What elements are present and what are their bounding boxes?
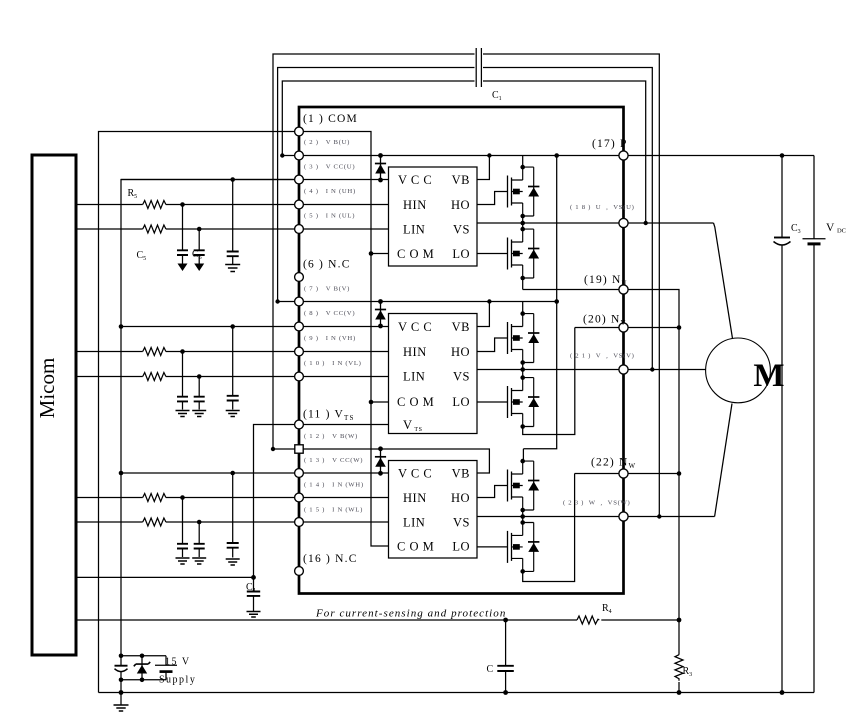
node dots section W <box>180 495 185 500</box>
svg-text:Supply: Supply <box>159 675 196 686</box>
Micom block <box>32 155 76 655</box>
capacitor C1 <box>476 48 481 87</box>
svg-text:( 2 3 ) W , VS(W): ( 2 3 ) W , VS(W) <box>563 500 631 507</box>
wire pin7 VB(V) / V rail <box>278 301 557 303</box>
node pin11 <box>295 420 304 429</box>
wire current-sensing line from micom <box>76 619 577 621</box>
wire COM return: pin1 left line <box>99 132 300 693</box>
wire motor lead from VS(W) <box>715 404 732 517</box>
node pin16 <box>295 567 304 576</box>
transistor U high-side <box>508 165 540 219</box>
capacitor on IN(VH) <box>182 352 184 397</box>
svg-text:V C C: V C C <box>398 467 432 481</box>
svg-text:LIN: LIN <box>403 223 425 237</box>
capacitor C3 electrolytic <box>781 156 783 693</box>
wire motor lead from VS(U) <box>714 223 733 339</box>
svg-text:HO: HO <box>451 491 470 505</box>
svg-text:Micom: Micom <box>35 358 59 419</box>
svg-text:( 1 4 ) I N (WH): ( 1 4 ) I N (WH) <box>304 482 364 489</box>
svg-text:(1 ) COM: (1 ) COM <box>303 113 358 125</box>
node pin8 <box>295 322 304 331</box>
svg-text:LO: LO <box>452 247 470 261</box>
svg-text:(6 ) N.C: (6 ) N.C <box>303 259 351 271</box>
ground <box>226 411 240 417</box>
wire micom to LIN(W) pin15 <box>76 521 299 523</box>
svg-text:VB: VB <box>452 320 470 334</box>
wire pin8 VCC(V) <box>121 326 389 328</box>
node pin19 <box>619 285 628 294</box>
battery 15V supply <box>165 656 167 680</box>
motor M <box>706 338 771 403</box>
wire P bus vertical <box>523 156 556 449</box>
wire VS(V) line pin21 to motor <box>477 369 706 371</box>
node pin17 P <box>619 151 628 160</box>
node pin9 <box>295 347 304 356</box>
svg-text:VS: VS <box>453 516 470 530</box>
wire pin10 IN(VL) <box>299 376 389 378</box>
svg-text:(20) NV: (20) NV <box>583 314 627 328</box>
svg-text:C O M: C O M <box>397 540 434 554</box>
svg-text:( 1 5 ) I N (WL): ( 1 5 ) I N (WL) <box>304 507 363 514</box>
wire U low source to Nu <box>522 278 524 290</box>
svg-text:( 1 2 ) V B(W): ( 1 2 ) V B(W) <box>304 433 358 440</box>
wire loop U (VB(U) to VS(U)) <box>282 81 645 223</box>
svg-text:M: M <box>753 358 784 394</box>
module outline box <box>299 107 624 594</box>
wire COM stub driver1 <box>371 253 389 255</box>
wire pin15 IN(WL) <box>299 521 389 523</box>
svg-text:LIN: LIN <box>403 516 425 530</box>
svg-text:( 1 0 ) I N (VL): ( 1 0 ) I N (VL) <box>304 360 362 367</box>
svg-text:HIN: HIN <box>403 345 427 359</box>
wire loop W (VB(W) to VS(W)) <box>273 54 659 517</box>
svg-text:C: C <box>487 664 494 675</box>
diode bootstrap V <box>375 299 386 328</box>
node pin2 <box>295 151 304 160</box>
svg-text:VB: VB <box>452 467 470 481</box>
wire pin13 VCC(W) <box>121 472 389 474</box>
capacitor on IN(VL) <box>198 377 200 397</box>
resistor (UL) <box>143 225 166 233</box>
svg-text:VS: VS <box>453 370 470 384</box>
svg-text:V C C: V C C <box>398 173 432 187</box>
wire pin4 IN(UH) to HIN <box>299 204 389 206</box>
node pin3 <box>295 175 304 184</box>
zener diode 15V <box>141 656 143 680</box>
wire VS(U) line pin18 <box>477 222 714 224</box>
driver IC V <box>389 314 478 434</box>
junction dot VS(W) crossing <box>520 514 525 519</box>
wire micom to HIN(W) pin14 <box>76 497 299 499</box>
resistor R5 <box>143 201 166 209</box>
ground arrow <box>178 264 188 272</box>
transistor W low-side <box>508 520 540 574</box>
resistor (WH) <box>143 494 166 502</box>
wire pin11 VTS <box>254 425 389 592</box>
node pin12 <box>295 445 303 453</box>
wire micom to LIN(V) pin10 <box>76 376 299 378</box>
battery VDC <box>813 156 815 693</box>
wire VB tap U <box>477 156 489 180</box>
svg-text:For current-sensing and protec: For current-sensing and protection <box>315 608 506 620</box>
wire pin1 COM to driver COM bus <box>299 132 389 547</box>
ground under C4 <box>247 612 261 618</box>
capacitor smoothing on 15V <box>120 656 122 666</box>
wire micom to HIN(U) pin4 <box>76 204 299 206</box>
transistor U low-side <box>508 227 540 280</box>
wire U high source to VS(U) <box>522 216 524 229</box>
capacitor on VCC(V) dist <box>232 327 234 396</box>
node dots section U <box>180 202 185 207</box>
wire HO U gate lead <box>477 192 508 205</box>
wire micom to LIN(U) pin5 <box>76 228 299 230</box>
node pin21 <box>619 365 628 374</box>
wire pin12 VB(W) <box>273 449 489 473</box>
node pin5 <box>295 225 304 234</box>
svg-text:C O M: C O M <box>397 247 434 261</box>
wire pin2 VB(U) / P rail <box>282 155 623 157</box>
capacitor on VCC(U) dist <box>232 180 234 252</box>
svg-text:( 5 ) I N (UL): ( 5 ) I N (UL) <box>304 213 355 220</box>
svg-text:C O M: C O M <box>397 395 434 409</box>
resistor (VH) <box>143 348 166 356</box>
wire V high source to VS(V) <box>522 363 524 378</box>
wire bottom DC- rail <box>99 692 815 694</box>
wire V high drain to rail <box>522 302 524 314</box>
ground <box>192 558 206 564</box>
wire P line to battery <box>624 155 815 157</box>
wire V low source riser to Nv <box>523 328 575 435</box>
resistor (VL) <box>143 373 166 381</box>
op-amp driver IC U <box>389 167 478 266</box>
junction dots sensing <box>503 618 508 623</box>
svg-text:( 2 ) V B(U): ( 2 ) V B(U) <box>304 139 350 146</box>
loop junction dots <box>280 153 284 157</box>
node pin22 <box>619 469 628 478</box>
svg-text:15 V: 15 V <box>165 657 191 668</box>
wire W drain rail <box>522 449 524 461</box>
node pin15 <box>295 518 304 527</box>
capacitor on VCC(W) dist <box>232 473 234 543</box>
node pin20 <box>619 323 628 332</box>
wire W high source to VS(W) <box>522 510 524 523</box>
svg-text:LIN: LIN <box>403 370 425 384</box>
ground <box>226 559 240 565</box>
node pin6 <box>295 273 304 282</box>
resistor R3 <box>678 620 680 693</box>
wire VS(W) line pin23 <box>477 516 715 518</box>
diode bootstrap W <box>375 446 386 475</box>
wire Nu line pin19 <box>523 290 679 621</box>
node pin13 <box>295 469 304 478</box>
transistor V low-side <box>508 375 540 429</box>
wire LO V gate lead <box>477 401 508 403</box>
svg-text:( 2 1 ) V , VS(V): ( 2 1 ) V , VS(V) <box>570 353 635 360</box>
wire LO W gate lead <box>477 546 508 548</box>
wire HO V gate lead <box>477 338 508 352</box>
ground <box>176 558 190 564</box>
svg-text:(19) NU: (19) NU <box>584 274 628 288</box>
wire micom to HIN(V) pin9 <box>76 351 299 353</box>
capacitor on IN(WL) <box>198 522 200 544</box>
wire LO U gate lead <box>477 253 508 255</box>
resistor R4 <box>577 616 599 624</box>
15V supply node wires <box>121 656 166 680</box>
wire micom VTS sense <box>76 576 254 578</box>
wire pin3 VCC(U) <box>121 179 389 181</box>
svg-text:( 1 3 ) V CC(W): ( 1 3 ) V CC(W) <box>304 457 363 464</box>
node pin10 <box>295 372 304 381</box>
svg-text:HO: HO <box>451 345 470 359</box>
svg-text:(17) P: (17) P <box>592 138 628 150</box>
ground arrow <box>194 264 204 272</box>
ground <box>225 265 240 272</box>
diode bootstrap U <box>375 153 386 182</box>
wire HO W gate lead <box>477 486 508 498</box>
capacitor C6b on IN(UL) <box>198 229 200 250</box>
svg-text:(16 ) N.C: (16 ) N.C <box>303 553 358 565</box>
wire VCC 15V rail vertical <box>121 180 299 657</box>
node pin23 <box>619 512 628 521</box>
svg-text:( 8 ) V CC(V): ( 8 ) V CC(V) <box>304 310 355 317</box>
wire pin9 IN(VH) <box>299 351 389 353</box>
svg-text:( 1 8 ) U , VS(U): ( 1 8 ) U , VS(U) <box>570 204 635 211</box>
node pin4 <box>295 200 304 209</box>
svg-text:( 7 ) V B(V): ( 7 ) V B(V) <box>304 286 350 293</box>
capacitor C shunt filter <box>505 620 507 693</box>
junction dot VS(V) crossing <box>520 367 525 372</box>
ground <box>192 411 206 417</box>
resistor (WL) <box>143 518 166 526</box>
svg-text:( 4 ) I N (UH): ( 4 ) I N (UH) <box>304 188 356 195</box>
transistor W high-side <box>508 459 540 513</box>
capacitor C4 on VTS <box>247 592 260 596</box>
wire VB tap V <box>477 302 489 327</box>
svg-text:( 9 ) I N (VH): ( 9 ) I N (VH) <box>304 335 356 342</box>
svg-text:LO: LO <box>452 540 470 554</box>
wire COM stub driver2 <box>371 401 389 403</box>
ground main <box>120 693 122 706</box>
svg-text:HO: HO <box>451 198 470 212</box>
wire Nv line pin20 <box>575 327 679 329</box>
svg-text:VS: VS <box>453 223 470 237</box>
driver IC W <box>389 461 478 559</box>
wire loop V (VB(V) to VS(V)) <box>278 68 653 370</box>
capacitor on IN(WH) <box>182 498 184 544</box>
junction dot VS(U) crossing <box>520 221 525 226</box>
svg-text:HIN: HIN <box>403 198 427 212</box>
wire pin14 IN(WH) <box>299 497 389 499</box>
capacitor C6a on IN(UH) <box>182 205 184 251</box>
node dots section V <box>180 349 185 354</box>
wire Nw line pin22 <box>575 473 679 475</box>
node pin14 <box>295 493 304 502</box>
transistor V high-side <box>508 311 540 365</box>
wire pin5 IN(UL) to LIN <box>299 228 389 230</box>
wire W low source riser to Nw <box>523 474 575 582</box>
svg-text:LO: LO <box>452 395 470 409</box>
svg-text:HIN: HIN <box>403 491 427 505</box>
wire U high drain to P rail <box>522 156 524 168</box>
node pin1 <box>295 127 304 136</box>
svg-text:V C C: V C C <box>398 320 432 334</box>
node pin18 <box>619 218 628 227</box>
ground <box>176 411 190 417</box>
node pin7 <box>295 297 304 306</box>
svg-text:VB: VB <box>452 173 470 187</box>
svg-text:( 3 ) V CC(U): ( 3 ) V CC(U) <box>304 164 355 171</box>
